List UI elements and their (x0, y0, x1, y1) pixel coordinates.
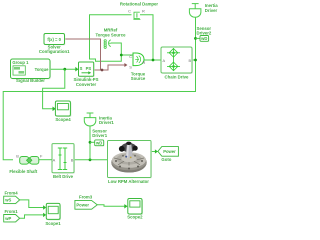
svg-text:Goto: Goto (161, 157, 171, 162)
block Goto Power (158, 147, 179, 157)
svg-text:S: S (129, 65, 132, 70)
svg-text:Configuration1: Configuration1 (39, 49, 70, 54)
svg-text:wS: wS (4, 198, 11, 203)
component Rotational Damper symbol (133, 12, 140, 19)
node junction sensor driver2 (194, 37, 197, 40)
wire torque source R to chain drive A (143, 59, 161, 61)
block Chain Drive (161, 47, 193, 74)
wire from3 Power to scope2 (97, 205, 124, 207)
wire from4 wS to scope1 (20, 200, 44, 208)
svg-text:Torque Source: Torque Source (95, 32, 126, 37)
arrow scope1 input2 (43, 213, 46, 217)
svg-text:Driver2: Driver2 (197, 30, 212, 35)
block Scope4 (55, 101, 71, 117)
svg-text:Driver: Driver (205, 8, 218, 13)
node junction maroon (101, 69, 104, 72)
block Inertia Driver1 (84, 113, 96, 126)
svg-text:A: A (53, 158, 56, 163)
arrow scope1 input1 (43, 205, 46, 209)
block From4 wS (4, 196, 21, 204)
svg-text:S: S (80, 66, 83, 71)
wire alternator to goto (151, 151, 155, 153)
svg-text:C: C (128, 9, 131, 14)
svg-text:f(x) = 0: f(x) = 0 (47, 37, 61, 42)
arrow torque source S input (124, 63, 127, 67)
svg-text:wD: wD (95, 140, 102, 145)
wire from1 wP to scope1 (20, 215, 44, 218)
block Scope1 (46, 203, 61, 220)
svg-text:R: R (142, 60, 145, 65)
svg-text:Signal Builder: Signal Builder (16, 78, 45, 83)
component MRRef Torque Source symbol (104, 40, 111, 49)
wire belt drive B to alternator (74, 159, 108, 161)
svg-text:From1: From1 (5, 209, 19, 214)
svg-text:Driver1: Driver1 (92, 133, 107, 138)
block Inertia Driver (189, 4, 201, 18)
svg-text:Driver1: Driver1 (99, 120, 114, 125)
node junction damper R (152, 59, 155, 62)
svg-text:Low RPM Alternator: Low RPM Alternator (108, 179, 149, 184)
block Solver Configuration1 (44, 34, 66, 46)
node junction signal builder (63, 68, 66, 71)
svg-text:Flexible Shaft: Flexible Shaft (9, 169, 38, 174)
wire damper R to shaft node (140, 15, 153, 60)
svg-text:C: C (129, 54, 132, 59)
arrow converter input (75, 67, 78, 72)
node junction chain B (194, 59, 197, 62)
arrow scope2 input (124, 204, 127, 208)
wire converter output PS to torque source S (maroon) (94, 65, 125, 70)
svg-text:Belt Drive: Belt Drive (53, 174, 74, 179)
block Scope2 (128, 199, 143, 216)
wire scope4 branch (43, 69, 65, 109)
svg-text:Torque: Torque (35, 67, 50, 72)
block From1 wP (4, 215, 21, 223)
component Flexible Shaft symbol (20, 157, 39, 165)
svg-text:B: B (188, 58, 191, 63)
wire signal builder to converter (50, 68, 76, 70)
wire chain drive B stub (192, 59, 196, 61)
svg-text:Converter: Converter (76, 82, 97, 87)
wire sensor driver2 stub (196, 37, 201, 39)
wire MRRef source output (111, 43, 121, 55)
svg-text:Source: Source (131, 76, 146, 81)
svg-text:Scope4: Scope4 (55, 117, 71, 122)
arrow scope4 input (53, 107, 56, 112)
svg-text:wP: wP (4, 216, 11, 221)
node junction sensor driver1 (89, 141, 92, 144)
wire solver configuration PS (maroon) (65, 39, 101, 70)
block Signal Builder (11, 59, 52, 80)
svg-text:From3: From3 (79, 194, 93, 199)
block Sensor Driver1 wD (95, 140, 105, 147)
wire inertia driver1 branch (89, 126, 91, 160)
svg-text:Power: Power (163, 149, 176, 154)
block Sensor Driver2 wD (200, 36, 209, 43)
svg-text:Power: Power (76, 203, 89, 208)
node junction MRRef/C (120, 54, 123, 57)
svg-text:Group 1: Group 1 (12, 60, 29, 65)
block From3 Power (75, 200, 98, 210)
svg-text:Chain Drive: Chain Drive (165, 75, 189, 80)
svg-text:R: R (142, 9, 145, 14)
svg-text:B: B (16, 153, 19, 158)
svg-text:From4: From4 (5, 191, 19, 196)
arrow goto input (155, 149, 158, 153)
svg-text:Scope2: Scope2 (127, 214, 143, 219)
wire damper C net (90, 15, 134, 62)
wire main shaft net right vertical and long horizontal to flexible shaft (3, 18, 195, 160)
block Simulink-PS Converter (79, 62, 95, 77)
block Belt Drive (52, 144, 75, 174)
block Low RPM Alternator (108, 141, 153, 179)
svg-text:wD: wD (200, 36, 207, 41)
svg-text:Rotational Damper: Rotational Damper (120, 2, 159, 7)
svg-text:B: B (71, 158, 74, 163)
svg-text:Scope1: Scope1 (45, 221, 61, 226)
svg-text:A: A (162, 58, 165, 63)
wire flexible shaft F to belt drive A (39, 159, 52, 161)
wire sensor driver1 stub (90, 141, 95, 143)
block Torque Source (133, 53, 144, 66)
node junction belt output (89, 158, 92, 161)
svg-text:PS: PS (86, 66, 92, 71)
